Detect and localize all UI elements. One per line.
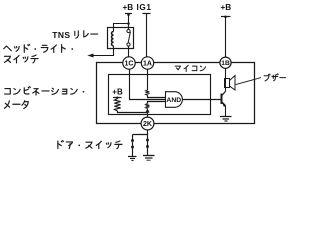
arrow to headlight switch <box>87 54 93 58</box>
wire IG1 to node 1A <box>146 14 148 58</box>
wire node 1A down <box>147 69 149 90</box>
combination meter box <box>97 63 255 124</box>
svg-text:AND: AND <box>166 97 181 104</box>
svg-text:+B: +B <box>112 88 123 97</box>
svg-text:2K: 2K <box>143 121 152 128</box>
terminal +B left <box>122 3 133 14</box>
wire relay coil branch <box>114 24 129 32</box>
wire emitter to ground <box>225 105 227 116</box>
svg-text:+B: +B <box>220 3 231 12</box>
svg-text:1B: 1B <box>221 60 230 67</box>
wire +B to node 1B <box>225 17 227 58</box>
wire node 1C to AND input 2 <box>130 69 166 99</box>
terminal +B internal <box>112 88 123 99</box>
ground (door switch left) <box>128 157 137 161</box>
AND gate U1 <box>166 92 183 108</box>
buzzer pointer line <box>236 78 261 85</box>
connector break mark upper <box>146 90 150 95</box>
transistor Q1 <box>222 91 227 107</box>
label door switch <box>58 141 122 149</box>
svg-text:1C: 1C <box>125 61 134 68</box>
wire 2K down to door switches <box>133 130 148 135</box>
label combination meter <box>4 87 84 109</box>
resistor pull-up R <box>114 99 120 112</box>
wire coil to headlight switch <box>93 46 114 56</box>
terminal IG1 <box>137 3 152 14</box>
microcomputer box <box>109 75 211 115</box>
label buzzer <box>264 74 286 81</box>
wire collector to node 1B <box>225 68 227 90</box>
ground (door switch right, hatched) <box>143 156 155 161</box>
wire AND output to transistor base <box>182 99 220 101</box>
relay switch contacts <box>127 29 130 46</box>
door switch left <box>131 135 134 157</box>
wire to AND input 1 <box>148 95 166 97</box>
node 2K <box>141 117 154 130</box>
relay coil L1 <box>112 32 114 46</box>
svg-text:1A: 1A <box>143 61 152 68</box>
node 1C <box>123 57 135 69</box>
wire break to AND input 3 <box>148 102 166 104</box>
wire resistor to node <box>118 111 148 113</box>
label headlight switch <box>4 44 73 63</box>
terminal +B right <box>220 3 231 18</box>
node 1A <box>141 57 153 69</box>
label microcomputer <box>175 65 205 71</box>
relay TNS box <box>108 28 134 49</box>
door switch right <box>146 135 149 156</box>
node 1B <box>220 57 231 68</box>
svg-text:+B: +B <box>122 3 133 12</box>
buzzer BZ1 <box>225 76 236 91</box>
label TNS relay <box>52 30 97 40</box>
connector break mark lower <box>146 104 150 109</box>
wire relay to node 1C <box>128 46 130 57</box>
svg-text:IG1: IG1 <box>137 3 152 12</box>
ground (transistor emitter) <box>220 117 232 122</box>
svg-text:TNS: TNS <box>52 30 70 40</box>
wire +B left supply drop <box>127 13 130 31</box>
wire 2K up with direction arrow <box>145 108 149 117</box>
